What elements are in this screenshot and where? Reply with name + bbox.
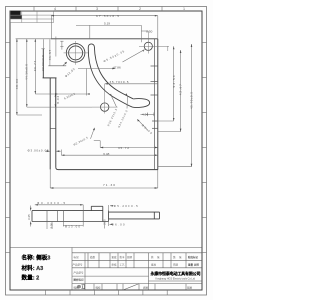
svg-text:Yongkang HGS Electric tools Co: Yongkang HGS Electric tools Co.Ltd [155,278,196,281]
zone ticks left edge [6,43,11,253]
svg-text:4.54: 4.54 [142,112,148,116]
zone ticks top edge [34,7,162,12]
svg-text:产品型号: 产品型号 [74,271,85,275]
boss circle (inner) [69,46,83,60]
svg-text:4: 4 [54,7,56,11]
svg-text:5.19: 5.19 [104,22,110,26]
arm tip cap [133,99,150,108]
svg-text:36.77: 36.77 [33,60,37,71]
left step edges [42,49,44,78]
hole A top-right [144,42,152,50]
svg-text:重量 比例: 重量 比例 [188,263,199,267]
column lines upper rows [87,253,89,268]
diagonal slash cell [123,284,139,290]
left vertical dims [16,39,18,115]
right vertical dims [173,46,175,121]
phi2.30 leader [91,128,95,139]
sheet inner frame [10,11,202,290]
svg-text:描图: 描图 [74,285,80,289]
svg-text:图样标记: 图样标记 [74,278,85,282]
part name / material / quantity [22,254,51,282]
svg-text:签字: 签字 [120,255,126,259]
slot tick [50,127,56,129]
svg-text:35.70±0.5: 35.70±0.5 [110,80,129,84]
dim 35.70 [105,83,158,85]
slot wall left [49,78,51,169]
svg-text:44.16±0.5: 44.16±0.5 [25,64,29,80]
svg-text:41.57: 41.57 [48,49,52,60]
svg-text:3: 3 [96,7,98,11]
dimension labels [28,14,153,187]
svg-text:阶段标记: 阶段标记 [188,255,199,259]
svg-text:名称: 侧板3: 名称: 侧板3 [22,254,51,262]
svg-text:42.67: 42.67 [179,84,183,95]
boss centerlines [64,41,89,65]
rotated diagonal labels [63,49,153,146]
svg-text:3.30: 3.30 [49,223,53,229]
svg-text:48.00: 48.00 [15,78,19,89]
svg-text:审核: 审核 [112,262,118,266]
svg-text:8.02: 8.02 [56,96,60,104]
svg-text:数量: 2: 数量: 2 [22,274,40,282]
svg-text:处数: 处数 [90,255,96,259]
title block small texts [73,255,200,290]
zone digits top [54,7,185,11]
dim 8.02 between y=94 and y=107 [54,94,56,107]
dim 47.86 [78,68,115,70]
svg-text:47.86: 47.86 [113,65,121,69]
svg-text:35.72: 35.72 [118,146,129,150]
step edge under boss [48,65,66,67]
svg-text:工艺: 工艺 [120,262,126,266]
third angle projection symbol [78,284,86,288]
arm top cap [88,44,94,47]
svg-text:更改: 更改 [112,255,118,259]
sheet outer frame [6,7,207,296]
svg-text:67.50±0.5: 67.50±0.5 [96,14,119,18]
R leader 2 [126,96,129,109]
svg-text:8.50: 8.50 [146,30,152,34]
svg-text:Φ6.00: Φ6.00 [112,223,125,227]
part bottom edge [56,167,158,169]
svg-text:永康市恒泰电动工具有限公司: 永康市恒泰电动工具有限公司 [150,270,201,276]
svg-text:底图: 底图 [143,285,149,289]
dimension arrowheads [16,15,192,189]
dim 4.54 [141,113,155,115]
svg-text:6.35: 6.35 [27,214,31,220]
svg-text:Φ5.20±0.5: Φ5.20±0.5 [114,204,138,208]
boss circle (outer) [66,44,85,63]
svg-text:6.48: 6.48 [103,152,109,156]
hole B lower-middle [101,103,109,111]
curved arm outer edge [88,47,132,107]
zone ticks bottom edge [46,290,168,295]
svg-text:蓝图: 蓝图 [187,285,193,289]
phi5.50 leader to hole A [123,50,145,63]
svg-text:33.90±0.5: 33.90±0.5 [41,55,45,71]
svg-text:1: 1 [183,7,185,11]
dim 8.50 line [141,30,148,32]
svg-text:Φ3.00±0.05: Φ3.00±0.05 [28,148,49,152]
column lines bottom row [93,284,95,290]
svg-text:2: 2 [139,7,141,11]
dim 6.48 [60,150,62,156]
svg-text:产品型号: 产品型号 [73,262,84,266]
svg-text:材料: A3: 材料: A3 [22,264,44,272]
svg-text:标记: 标记 [74,255,80,259]
svg-text:批准: 批准 [151,262,157,266]
leader for phi12.6 [63,62,67,66]
part top edge [51,38,158,40]
dim 5.19 line [76,24,141,26]
right strip feature ticks [151,65,158,67]
dim 67.50 line [51,15,158,17]
svg-text:日期: 日期 [173,262,179,266]
company name [150,270,201,281]
svg-text:日期: 日期 [127,255,133,259]
side view dims [31,205,114,229]
part right inner edge [154,39,156,170]
ext of top edge to the left [16,38,51,40]
svg-text:45.70±0.5: 45.70±0.5 [190,92,194,109]
dim 35.72 [94,140,100,142]
svg-text:描校: 描校 [96,285,102,289]
dim 71.30 [49,169,51,188]
svg-text:54.54: 54.54 [172,75,176,87]
curved arm inner edge [94,47,133,99]
slot wall right [55,78,57,167]
part right outer edge [157,39,159,170]
dim 6.30 line [58,93,87,95]
R leader 1 [112,96,117,107]
zone ticks right edge [202,43,207,253]
part outline [43,39,158,170]
small dims at top-left step [55,37,57,57]
svg-text:71.30: 71.30 [103,183,115,187]
corner revision table top-left [10,11,53,23]
svg-text:2.50: 2.50 [102,219,106,225]
svg-text:Φ0.30±0.5: Φ0.30±0.5 [37,201,65,205]
R5.50 leader [137,119,148,130]
phi3 slot arrows [45,150,50,152]
